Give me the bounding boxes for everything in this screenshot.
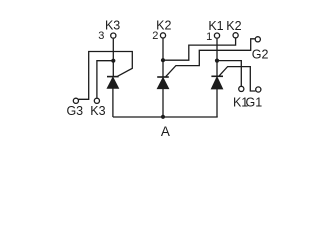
node K3 junction	[111, 59, 115, 63]
wire K3 cathode down	[112, 39, 114, 61]
svg-text:G3: G3	[66, 104, 83, 118]
terminal K2	[160, 33, 165, 38]
thyristor T2 triangle	[157, 78, 168, 89]
svg-text:3: 3	[98, 30, 104, 42]
terminal K1 auxiliary	[239, 86, 244, 91]
terminal G3	[73, 98, 78, 103]
wire T2 anode down	[162, 89, 164, 117]
svg-text:K3: K3	[105, 19, 120, 33]
svg-text:K2: K2	[226, 19, 241, 33]
svg-text:1: 1	[206, 31, 212, 43]
terminal K3	[111, 33, 116, 38]
wire junction to thyristor T2 cathode	[162, 60, 164, 77]
wire T2 gate to G2	[166, 39, 255, 77]
svg-text:K3: K3	[90, 104, 105, 118]
thyristor T3 cathode bar	[107, 76, 119, 78]
svg-text:A: A	[161, 124, 170, 139]
wire T3 anode down	[112, 88, 114, 117]
svg-text:K2: K2	[156, 19, 171, 33]
wire T3 gate: diagonal, up right side, across left	[79, 52, 133, 100]
wire K1 auxiliary cathode	[217, 61, 241, 87]
terminal G1	[256, 87, 261, 92]
wire junction to thyristor T1 cathode	[216, 61, 218, 77]
node A junction	[161, 115, 165, 119]
terminal K1	[214, 33, 219, 38]
wire K2 cathode down	[162, 39, 164, 61]
thyristor T3 triangle	[107, 77, 118, 88]
svg-text:G2: G2	[252, 47, 269, 61]
wire K1 cathode down	[216, 39, 218, 61]
thyristor T1 cathode bar	[211, 75, 223, 77]
terminal K2 auxiliary	[233, 33, 238, 38]
svg-text:G1: G1	[246, 95, 263, 109]
wire K3 auxiliary cathode	[97, 61, 113, 98]
node K2 junction	[161, 58, 165, 62]
wire T1 gate to G1	[219, 67, 255, 91]
terminal K3 auxiliary	[94, 98, 99, 103]
terminal G2	[255, 37, 260, 42]
wire T1 anode down	[216, 89, 218, 117]
thyristor T2 cathode bar	[157, 76, 169, 78]
thyristor T1 triangle	[211, 77, 222, 89]
wire junction to thyristor T3 cathode	[112, 61, 114, 77]
wire anode bus A	[113, 116, 218, 118]
wire K2 auxiliary cathode	[163, 38, 236, 60]
node K1 junction	[215, 59, 219, 63]
svg-text:2: 2	[152, 30, 158, 42]
